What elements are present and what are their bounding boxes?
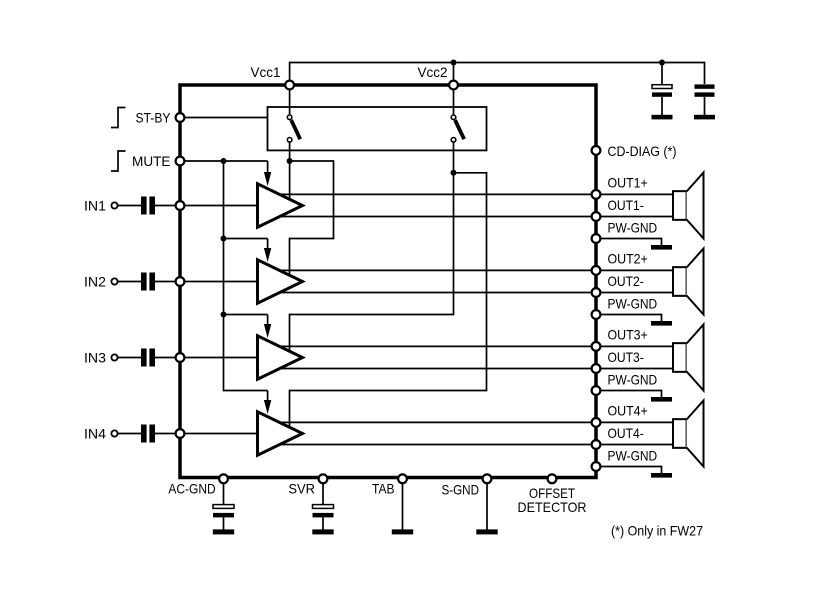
svg-text:OUT1+: OUT1+: [608, 174, 648, 190]
svg-text:Vcc1: Vcc1: [251, 64, 281, 80]
svg-text:CD-DIAG (*): CD-DIAG (*): [608, 143, 677, 159]
svg-text:SVR: SVR: [288, 481, 315, 497]
svg-text:Vcc2: Vcc2: [418, 64, 448, 80]
svg-text:(*) Only in FW27: (*) Only in FW27: [611, 523, 703, 539]
svg-text:IN2: IN2: [84, 274, 106, 290]
svg-text:MUTE: MUTE: [132, 153, 171, 169]
svg-text:OUT2-: OUT2-: [608, 273, 645, 289]
svg-text:S-GND: S-GND: [442, 481, 480, 497]
svg-text:AC-GND: AC-GND: [168, 481, 215, 497]
svg-text:OUT1-: OUT1-: [608, 197, 645, 213]
svg-text:OUT4-: OUT4-: [608, 425, 645, 441]
svg-text:OUT4+: OUT4+: [608, 402, 648, 418]
svg-text:OUT2+: OUT2+: [608, 250, 648, 266]
svg-text:PW-GND: PW-GND: [608, 296, 658, 312]
svg-text:PW-GND: PW-GND: [608, 220, 658, 236]
svg-text:TAB: TAB: [372, 481, 395, 497]
svg-text:DETECTOR: DETECTOR: [518, 499, 587, 515]
svg-text:OUT3-: OUT3-: [608, 349, 645, 365]
svg-text:PW-GND: PW-GND: [608, 372, 658, 388]
svg-text:ST-BY: ST-BY: [136, 110, 172, 126]
svg-text:IN1: IN1: [84, 198, 106, 214]
svg-text:IN3: IN3: [84, 350, 106, 366]
svg-text:PW-GND: PW-GND: [608, 448, 658, 464]
svg-text:IN4: IN4: [84, 426, 106, 442]
svg-text:OUT3+: OUT3+: [608, 326, 648, 342]
